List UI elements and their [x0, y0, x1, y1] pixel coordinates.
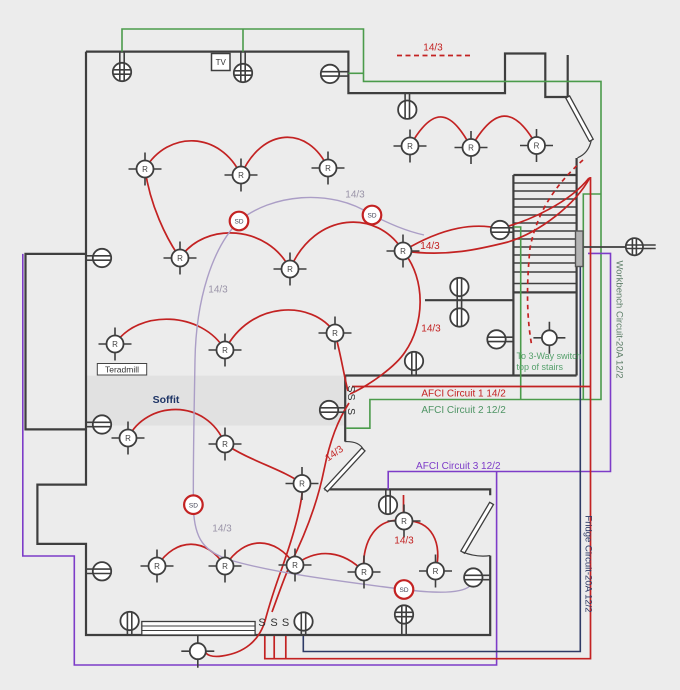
svg-text:R: R	[177, 254, 183, 263]
outlet soffit wall	[320, 401, 345, 419]
wire red arc R5-R6	[471, 116, 537, 147]
svg-text:top of stairs: top of stairs	[517, 362, 564, 372]
recessed light R2	[225, 159, 258, 192]
Treadmill label	[97, 364, 146, 376]
svg-text:R: R	[325, 164, 331, 173]
svg-text:R: R	[238, 171, 244, 180]
wire green AFCI2 main run	[122, 29, 601, 428]
outlet top wall 1	[113, 52, 131, 82]
smoke detector SD1	[230, 212, 249, 231]
wire red arc R17-R18	[225, 543, 295, 566]
svg-text:R: R	[222, 440, 228, 449]
outlet workbench	[120, 612, 138, 635]
service meter symbol	[583, 238, 656, 255]
wire red R9 over stairs lower	[403, 178, 590, 254]
outlet top wall 2	[234, 52, 252, 83]
svg-text:S: S	[270, 617, 277, 629]
workbench	[142, 622, 255, 636]
door swing arc top-right	[578, 140, 592, 158]
svg-text:S: S	[345, 393, 357, 400]
svg-text:R: R	[534, 142, 540, 151]
svg-text:R: R	[222, 562, 228, 571]
stair treads	[513, 183, 576, 284]
outlet bath vanity	[487, 330, 513, 348]
svg-text:Fridge Circuit-20A 12/2: Fridge Circuit-20A 12/2	[582, 515, 593, 612]
svg-text:R: R	[112, 340, 118, 349]
wire red R9 to switches	[350, 251, 420, 394]
wire stairs left wall	[512, 175, 514, 376]
wire bottom-right room wall	[324, 489, 490, 495]
svg-text:R: R	[361, 568, 367, 577]
wire red arc R7-R8	[180, 233, 290, 269]
keyless light under stairs	[533, 322, 565, 354]
electrical panel	[576, 231, 584, 267]
svg-text:TV: TV	[216, 58, 227, 67]
door leaf hallway	[324, 448, 365, 492]
svg-text:14/3: 14/3	[420, 241, 440, 252]
svg-text:S: S	[282, 617, 289, 629]
recessed light R7	[164, 242, 197, 275]
wire green stub outlet3	[348, 72, 363, 74]
svg-text:AFCI Circuit 1 14/2: AFCI Circuit 1 14/2	[421, 389, 506, 400]
recessed light R15	[286, 467, 319, 500]
svg-text:SD: SD	[367, 213, 376, 220]
keyless light laundry	[181, 635, 214, 668]
outlet fridge	[294, 612, 312, 635]
door leaf top-right entry	[566, 96, 593, 141]
smoke detector SD3	[184, 495, 203, 514]
outlet crosshatch special	[395, 605, 413, 635]
recessed light R6	[520, 129, 553, 162]
svg-text:R: R	[292, 561, 298, 570]
wire green stub outlet2	[242, 29, 244, 52]
wire red R1-R7	[145, 169, 180, 258]
outlet pair bath wall	[450, 278, 468, 327]
recessed light R12	[319, 317, 352, 350]
recessed light R20	[388, 505, 421, 538]
wire red soffit arc R13-R14	[128, 409, 225, 444]
svg-text:AFCI Circuit 2 12/2: AFCI Circuit 2 12/2	[421, 405, 506, 416]
svg-text:Teradmill: Teradmill	[105, 364, 139, 374]
svg-text:R: R	[332, 329, 338, 338]
wire outer wall top	[86, 52, 568, 97]
wire red arc R16-R17	[157, 544, 225, 566]
outlet left wall upper	[86, 249, 111, 267]
wire red switch stub c	[285, 636, 287, 659]
recessed light R4	[394, 130, 427, 163]
wire red switch stub b	[273, 636, 275, 659]
door leaf bottom-right room	[461, 502, 494, 553]
svg-text:SD: SD	[399, 587, 408, 594]
wire red R20 stub	[403, 495, 405, 512]
wire red arc R20-R21	[404, 521, 438, 571]
recessed light R21	[419, 555, 452, 588]
wire red R15 to S bank to keyless light	[206, 490, 303, 656]
svg-text:R: R	[468, 144, 474, 153]
svg-text:R: R	[287, 265, 293, 274]
outlet near stairs top	[491, 221, 514, 239]
wire red R12 to switches	[335, 333, 348, 391]
outlet left wall middle	[86, 415, 111, 433]
wire stairs top edge	[513, 174, 576, 176]
recessed light R17	[209, 550, 242, 583]
svg-text:R: R	[400, 247, 406, 256]
wire stairs bottom edge	[513, 291, 576, 293]
recessed light R3	[312, 152, 345, 185]
svg-text:14/3: 14/3	[208, 285, 228, 296]
svg-text:To 3-Way switch: To 3-Way switch	[517, 351, 582, 361]
TV box	[212, 54, 231, 71]
recessed light R5	[455, 131, 488, 164]
svg-text:AFCI Circuit 3 12/2: AFCI Circuit 3 12/2	[416, 461, 501, 472]
wire red arc R18-R19	[295, 554, 364, 572]
recessed light R19	[348, 556, 381, 589]
recessed light R9	[387, 235, 420, 268]
outlet corridor	[405, 352, 423, 376]
outlet hall top	[398, 93, 416, 119]
svg-text:R: R	[222, 346, 228, 355]
smoke detector SD2	[363, 206, 382, 225]
outlet top wall 3	[321, 65, 349, 83]
wire lavender SD1-SD3-SD4-outlet	[193, 221, 473, 592]
svg-text:R: R	[125, 434, 131, 443]
svg-text:R: R	[142, 165, 148, 174]
wire red R9 over stairs upper	[403, 178, 589, 251]
wire red dashed 3-way travelers	[528, 160, 583, 347]
recessed light R8	[274, 253, 307, 286]
wire red arc R20-R19	[364, 520, 404, 572]
wire red AFCI1 homerun	[265, 177, 591, 659]
svg-text:14/3: 14/3	[421, 324, 441, 335]
wire corridor wall	[345, 374, 576, 376]
wire switch wall	[344, 376, 346, 442]
wire purple workbench/AFCI3 circuit	[388, 253, 610, 489]
recessed light R13	[112, 422, 145, 455]
wire red wall switches to S bank	[272, 403, 349, 612]
wire bathroom half wall	[425, 299, 513, 301]
recessed light R10	[99, 328, 132, 361]
svg-text:R: R	[407, 142, 413, 151]
wire red AFCI1 horizontal	[352, 386, 591, 388]
outlet bottom-right room top	[379, 489, 397, 514]
recessed light R14	[209, 428, 242, 461]
svg-text:14/3: 14/3	[394, 536, 414, 547]
svg-text:Soffit: Soffit	[153, 394, 180, 406]
wire lavender SD1-SD2	[239, 197, 424, 235]
outlet left wall lower	[86, 562, 111, 580]
soffit band	[86, 376, 345, 426]
svg-text:SD: SD	[234, 219, 243, 226]
svg-text:R: R	[401, 517, 407, 526]
svg-text:R: R	[154, 562, 160, 571]
door swing arc bottom-right room	[463, 552, 491, 556]
wire red arc R11-R12	[225, 310, 335, 350]
wire red arc R1-R2	[145, 141, 241, 175]
recessed light R1	[129, 153, 162, 186]
svg-text:14/3: 14/3	[212, 524, 232, 535]
legend dashed 14/3 line	[397, 55, 472, 57]
recessed light R16	[141, 550, 174, 583]
wire wall door spur top-right	[567, 55, 569, 97]
svg-text:SD: SD	[189, 502, 198, 509]
wire red arc R10-R11	[115, 319, 225, 350]
wire purple branch to bottom and left wall	[23, 254, 497, 665]
wire red arc R2-R3	[241, 137, 328, 175]
svg-text:14/3: 14/3	[423, 43, 443, 54]
svg-text:R: R	[299, 480, 305, 489]
svg-text:S: S	[345, 385, 357, 392]
wire bay bump-out wall	[26, 254, 87, 430]
wire outer wall left and bottom	[37, 52, 490, 635]
svg-text:14/3: 14/3	[345, 190, 365, 201]
wire red arc R4-R5	[410, 117, 471, 148]
svg-text:S: S	[258, 617, 265, 629]
wire green branch right of stairs	[583, 194, 601, 400]
smoke detector SD4	[395, 580, 414, 599]
wire red R14-R15	[225, 444, 302, 484]
outlet bottom-right room right	[464, 568, 490, 586]
wire red arc R8-R9	[290, 222, 403, 269]
svg-text:S: S	[345, 408, 357, 415]
wire stairs right wall	[575, 158, 577, 376]
recessed light R11	[209, 334, 242, 367]
recessed light R18	[279, 549, 312, 582]
wire green branch through stairs	[514, 227, 521, 400]
wire navy fridge circuit	[303, 267, 580, 652]
svg-text:R: R	[433, 567, 439, 576]
door swing arc hallway	[345, 442, 363, 450]
svg-text:Workbench Circuit-20A 12/2: Workbench Circuit-20A 12/2	[614, 260, 625, 378]
